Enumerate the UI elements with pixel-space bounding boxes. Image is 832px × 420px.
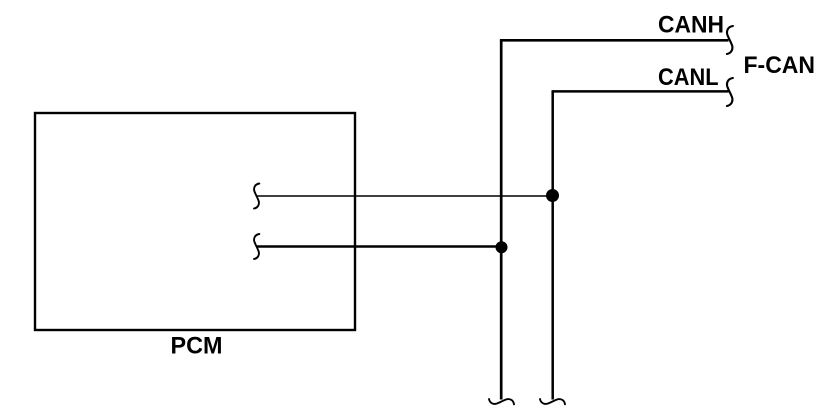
svg-text:CANH: CANH <box>658 11 724 38</box>
junction dot on CANH line <box>496 241 508 253</box>
wire CANL vertical drop <box>551 90 554 399</box>
break symbol at CANH wire end <box>727 26 733 54</box>
wire PCM pin 1 to CANL node <box>257 195 553 197</box>
break symbol at PCM pin 2 <box>254 234 259 259</box>
break symbol at CANL line bottom <box>540 399 565 404</box>
wire PCM pin 2 to CANH node <box>257 245 501 248</box>
svg-text:CANL: CANL <box>658 64 719 91</box>
svg-text:F-CAN: F-CAN <box>744 52 816 79</box>
break symbol at PCM pin 1 <box>254 184 259 209</box>
wire CANH horizontal run <box>501 39 729 42</box>
junction dot on CANL line <box>546 189 559 202</box>
svg-text:PCM: PCM <box>171 332 223 359</box>
PCM box <box>35 113 355 330</box>
wire CANL horizontal run <box>553 90 729 93</box>
wire CANH vertical drop <box>500 39 503 400</box>
break symbol at CANH line bottom <box>489 399 514 404</box>
break symbol at CANL wire end <box>727 78 733 106</box>
